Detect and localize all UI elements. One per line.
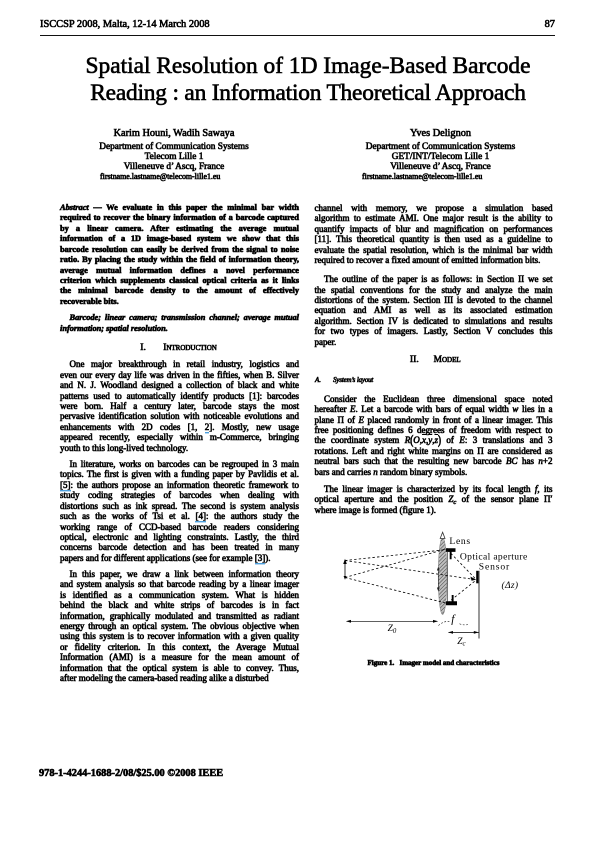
keywords [60, 313, 299, 334]
ray lens top to I [448, 550, 476, 579]
object arrow [344, 561, 346, 578]
svg-text:f: f [451, 613, 456, 625]
intro paragraph 2 [60, 459, 299, 564]
svg-text:(Δz): (Δz) [502, 580, 519, 591]
right column outline paragraph [315, 274, 553, 347]
intro paragraph 1 [60, 359, 299, 453]
author block right [331, 128, 551, 140]
lens tip arrow [440, 532, 445, 538]
ray T to lens top [345, 550, 448, 561]
svg-text:Zc: Zc [457, 637, 465, 648]
section heading I [140, 343, 217, 353]
ray B to lens top [345, 549, 448, 578]
svg-text:Z0: Z0 [388, 624, 397, 635]
paper title [2, 53, 595, 106]
lens diameter double arrow [437, 569, 439, 590]
model paragraph 1 [315, 394, 553, 478]
aperture bottom bracket [446, 595, 457, 605]
image point arrowhead [470, 577, 476, 581]
ray chief T to I [345, 561, 471, 579]
page number [505, 19, 555, 30]
author block left [64, 128, 284, 140]
model paragraph 2 [315, 484, 553, 515]
ray B to lens bottom [345, 578, 448, 604]
sensor thick bar [476, 571, 478, 584]
ray lens bottom to I [448, 580, 476, 603]
figure caption [315, 659, 553, 667]
running head left [40, 19, 210, 30]
svg-text:Sensor: Sensor [479, 562, 510, 573]
lens body [438, 537, 447, 614]
f arcs [439, 621, 451, 625]
figure 1 drawing [335, 525, 540, 655]
Z0 dimension line [347, 620, 438, 622]
aperture plane line [447, 552, 449, 602]
svg-text:Lens: Lens [449, 536, 470, 547]
intro paragraph 3 [60, 569, 299, 684]
footer copyright [39, 768, 223, 779]
aperture top bracket [446, 548, 456, 559]
sensor axis line [478, 571, 480, 639]
Zc dimension line [449, 631, 479, 633]
abstract [60, 203, 299, 308]
subsection A heading [315, 375, 373, 386]
header rule [40, 35, 556, 36]
right column first paragraph (continuation) [315, 203, 553, 266]
section heading II [410, 355, 461, 365]
